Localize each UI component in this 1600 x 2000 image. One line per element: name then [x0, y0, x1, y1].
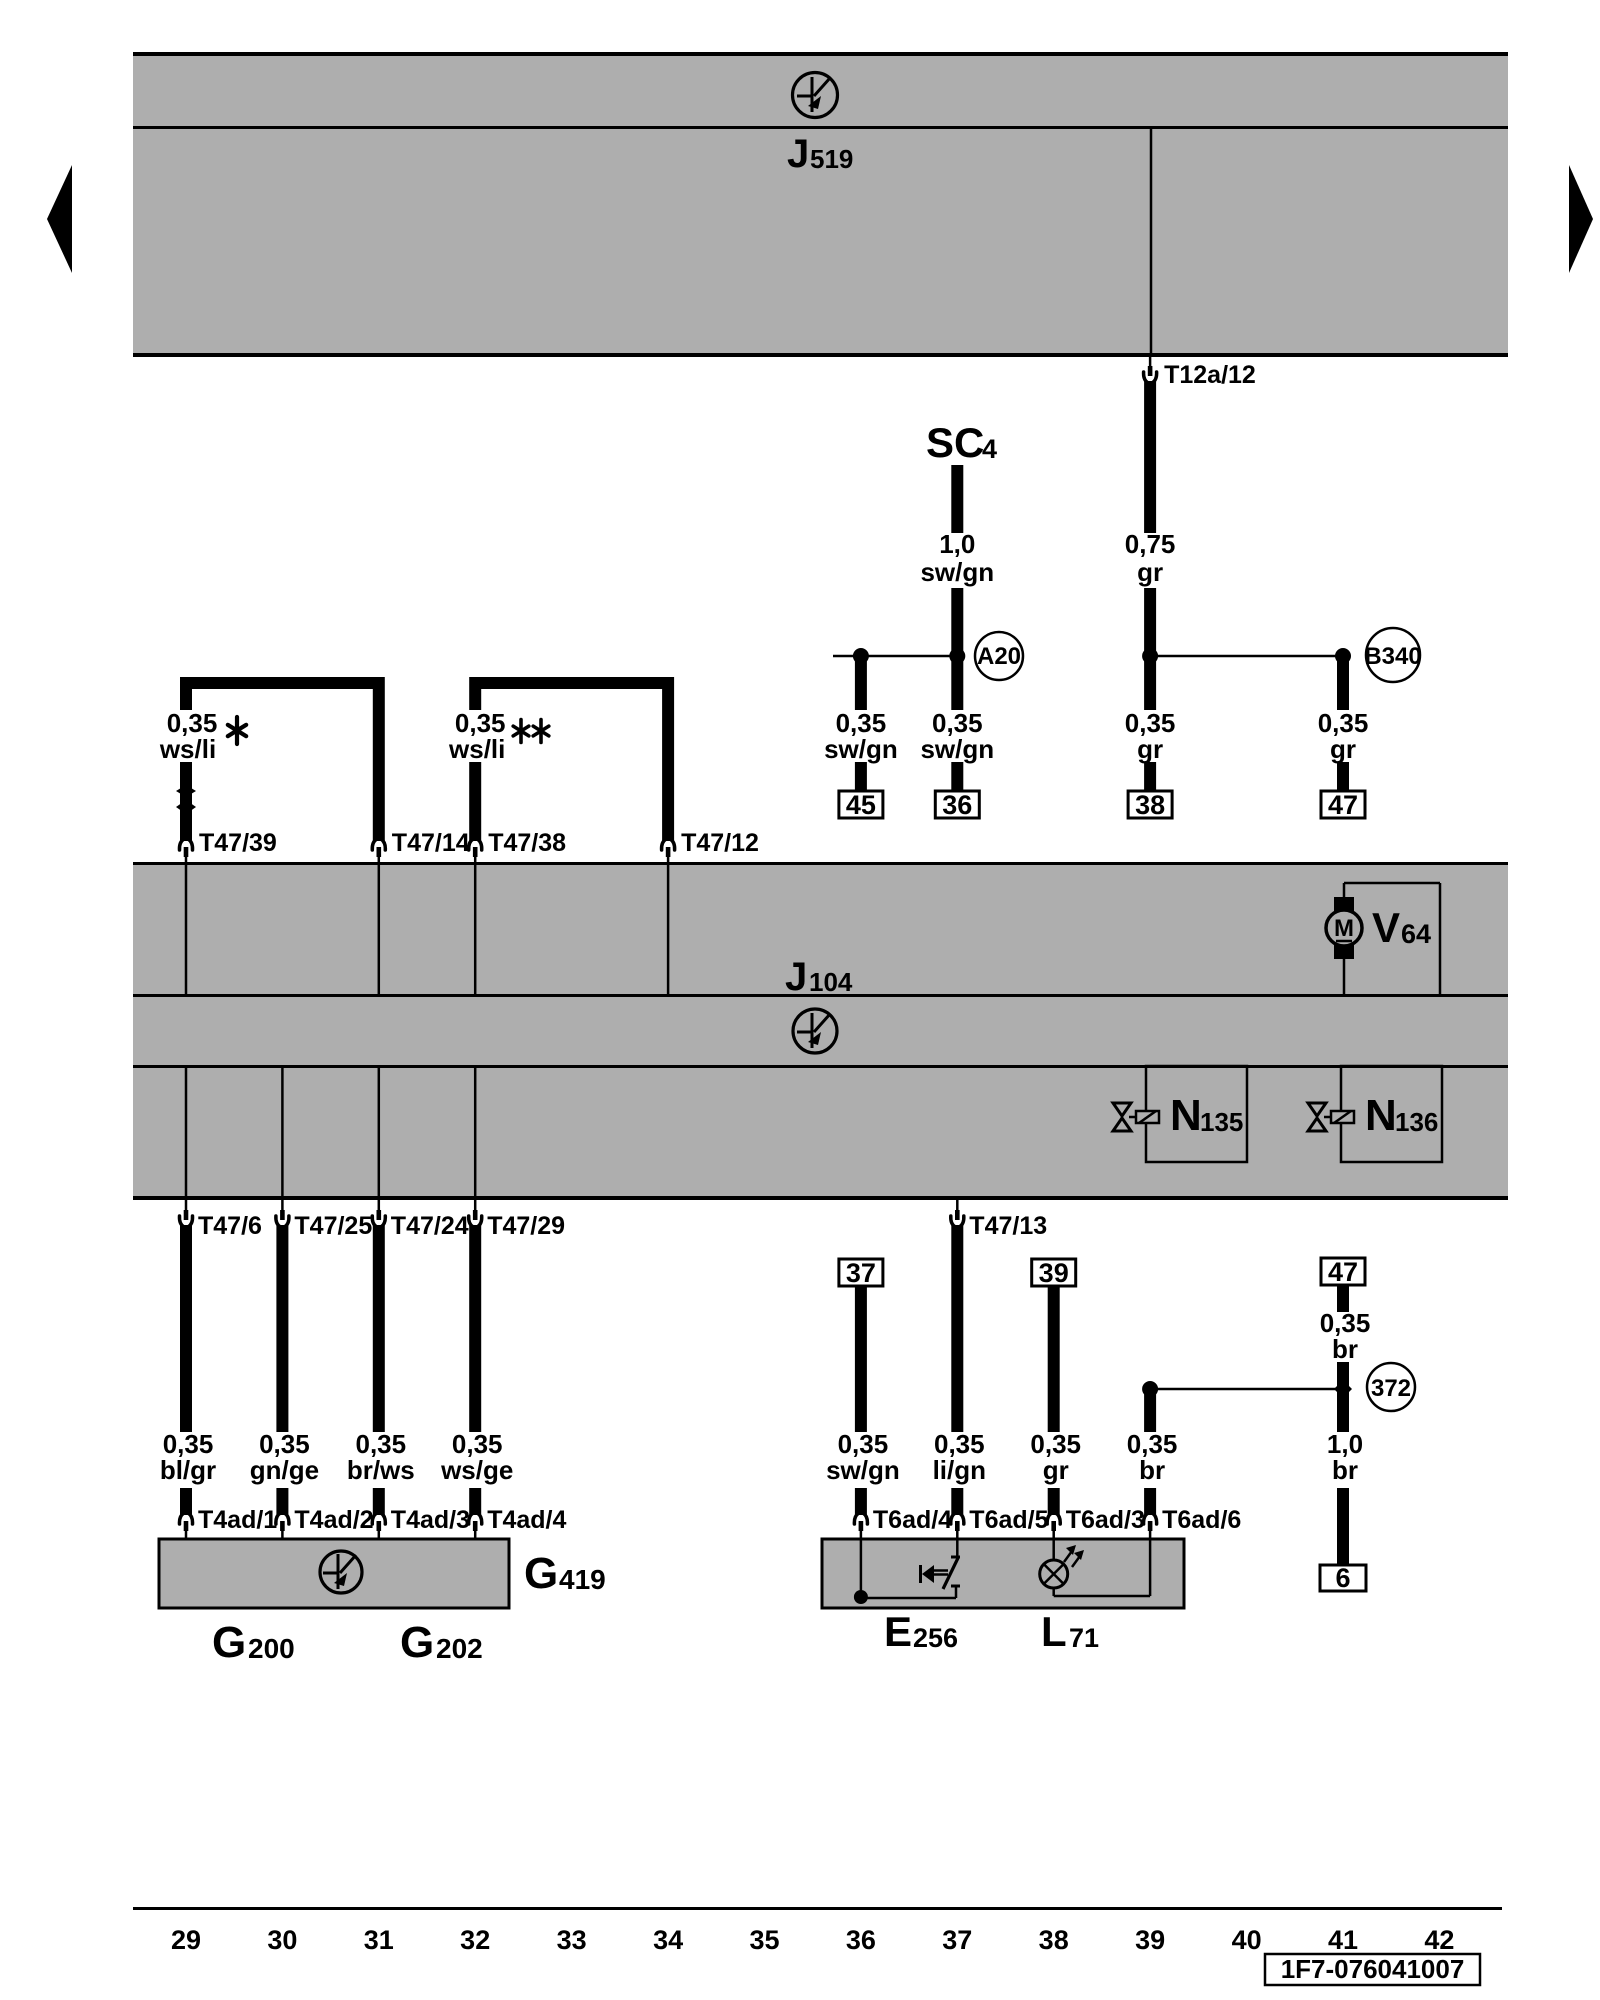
label T6ad/4 [873, 1506, 952, 1534]
svg-text:gr: gr [1137, 557, 1163, 587]
svg-text:T6ad/3: T6ad/3 [1066, 1506, 1145, 1534]
wire 0,35 sw/gn from terminal 37 [855, 1286, 867, 1432]
wire internal J104 to pin T47/6 [185, 1066, 188, 1212]
grid numbers 29-42 [171, 1925, 1454, 1955]
svg-text:sw/gn: sw/gn [826, 1455, 900, 1485]
svg-text:G: G [524, 1549, 558, 1598]
lamp L71 symbol [1040, 1539, 1150, 1596]
svg-text:135: 135 [1200, 1107, 1243, 1137]
svg-text:ws/li: ws/li [448, 734, 505, 764]
control unit J519 box (onboard supply control unit) [133, 52, 1508, 357]
svg-text:45: 45 [846, 790, 876, 820]
svg-text:M: M [1334, 915, 1354, 942]
svg-text:br: br [1139, 1455, 1165, 1485]
svg-text:br/ws: br/ws [347, 1455, 415, 1485]
svg-text:39: 39 [1039, 1258, 1069, 1288]
label J104 [785, 955, 853, 999]
svg-text:47: 47 [1328, 790, 1358, 820]
label 0,75 gr [1125, 529, 1176, 587]
svg-text:T47/39: T47/39 [199, 829, 277, 857]
wire internal J519 to pin T12a/12 [1150, 129, 1153, 357]
svg-text:T47/12: T47/12 [681, 829, 759, 857]
junction node on gr wire [1142, 648, 1158, 664]
svg-text:J: J [785, 955, 807, 999]
svg-text:G: G [400, 1618, 434, 1667]
wire 0,75 gr upper segment [1144, 381, 1156, 533]
sensor unit G419 box (G200/G202) [159, 1539, 509, 1608]
svg-text:B340: B340 [1364, 643, 1421, 670]
node circle A20 [975, 632, 1023, 680]
svg-text:gr: gr [1043, 1455, 1069, 1485]
svg-text:64: 64 [1401, 919, 1431, 949]
valve N135 symbol [1113, 1066, 1247, 1162]
wire 0,35 sw/gn from A20 node [855, 656, 867, 710]
terminal box 47 lower [1321, 1257, 1365, 1287]
svg-text:bl/gr: bl/gr [160, 1455, 216, 1485]
label T6ad/6 [1162, 1506, 1241, 1534]
svg-text:37: 37 [846, 1258, 876, 1288]
wire 0,35 sw/gn to E256 [855, 1488, 867, 1515]
switch/lamp unit box E256 L71 [822, 1539, 1184, 1608]
connector pin T6ad/6 [1144, 1513, 1157, 1539]
svg-text:34: 34 [653, 1925, 683, 1955]
wire internal J104 from pin T47/12 [667, 865, 670, 996]
svg-text:202: 202 [436, 1633, 483, 1664]
svg-text:A20: A20 [977, 643, 1021, 670]
wire 0,35 br/ws lower segment [373, 1488, 385, 1515]
internal wire E256 left leg [854, 1539, 956, 1604]
wire 0,35 ws/ge lower segment [469, 1488, 481, 1515]
terminal box 6 [1320, 1563, 1366, 1593]
valve N136 symbol [1308, 1066, 1442, 1162]
junction dot on sw/gn wire A20 [949, 648, 965, 664]
svg-text:35: 35 [749, 1925, 779, 1955]
wire node line B340 [1150, 655, 1343, 658]
svg-text:li/gn: li/gn [933, 1455, 986, 1485]
svg-text:T47/14: T47/14 [392, 829, 470, 857]
connector pin T6ad/4 [854, 1513, 867, 1539]
label T47/14 [392, 829, 470, 857]
label 0,35 ws/li with ** [448, 708, 549, 764]
K symbol in J104 [793, 1009, 837, 1053]
label G419 [524, 1549, 606, 1598]
wire 0,35 gn/ge upper segment [276, 1225, 288, 1432]
grid ruler line [133, 1907, 1502, 1910]
wire internal J104 from pin T47/39 [185, 865, 188, 996]
label T47/13 [969, 1212, 1047, 1240]
svg-text:SC: SC [926, 419, 984, 466]
terminal box 38 [1128, 790, 1172, 820]
label 0,35 sw/gn (col 37) [920, 708, 994, 764]
node circle 372 [1367, 1363, 1415, 1411]
wire 1,0 br to terminal 6 [1337, 1488, 1349, 1565]
label 0,35 gr (col 41) [1318, 708, 1369, 764]
svg-text:T47/29: T47/29 [487, 1212, 565, 1240]
svg-text:T4ad/2: T4ad/2 [294, 1506, 373, 1534]
label SC4 [926, 419, 997, 466]
svg-text:1,0: 1,0 [939, 529, 975, 559]
label T12a/12 [1164, 361, 1256, 389]
K symbol in J519 [793, 73, 838, 118]
svg-text:G: G [212, 1618, 246, 1667]
label T47/38 [488, 829, 566, 857]
svg-text:ws/ge: ws/ge [440, 1455, 513, 1485]
label 0,35 gn/ge [250, 1429, 319, 1485]
connector pin T6ad/5 [951, 1513, 964, 1539]
svg-text:372: 372 [1371, 1375, 1411, 1402]
connector pin T47/12 [662, 839, 675, 996]
svg-text:29: 29 [171, 1925, 201, 1955]
svg-text:38: 38 [1135, 790, 1165, 820]
connector pin T47/14 [372, 839, 385, 996]
svg-text:T47/25: T47/25 [294, 1212, 372, 1240]
wire node line 372 [1150, 1388, 1343, 1391]
svg-text:gr: gr [1137, 734, 1163, 764]
wire 0,35 br segment [1144, 1392, 1156, 1432]
svg-text:71: 71 [1069, 1623, 1099, 1653]
label T47/12 [681, 829, 759, 857]
connector pin T47/24 [372, 1210, 385, 1227]
wire 0,75 gr lower segment [1144, 588, 1156, 710]
svg-text:200: 200 [248, 1633, 295, 1664]
label N135 [1170, 1091, 1243, 1140]
label J519 [787, 132, 853, 176]
svg-text:sw/gn: sw/gn [920, 557, 994, 587]
svg-text:sw/gn: sw/gn [920, 734, 994, 764]
label 1,0 br [1327, 1429, 1363, 1485]
wire internal J104 from pin T47/38 [474, 865, 477, 996]
wire 0,35 gn/ge lower segment [276, 1488, 288, 1515]
svg-text:30: 30 [267, 1925, 297, 1955]
wire 0,35 gr from terminal 39 [1048, 1286, 1060, 1432]
splice marks on ws/li wire [176, 785, 196, 814]
wire 0,35 br lower segment [1144, 1488, 1156, 1515]
svg-text:519: 519 [810, 144, 853, 174]
wire 0,35 br/ws upper segment [373, 1225, 385, 1432]
wire 0,35 gr from B340 [1337, 656, 1349, 710]
label 0,35 li/gn [933, 1429, 986, 1485]
label G202 [400, 1618, 483, 1667]
terminal box 36 [935, 790, 979, 820]
label T4ad/2 [294, 1506, 373, 1534]
wire 0,35 br from terminal 47 [1337, 1285, 1349, 1312]
svg-text:36: 36 [942, 790, 972, 820]
wire internal J104 to pin T47/24 [378, 1066, 381, 1212]
wire 0,35 gr to L71 [1048, 1488, 1060, 1515]
svg-text:47: 47 [1328, 1257, 1358, 1287]
wire 1,0 sw/gn from SC4 [951, 465, 963, 533]
label 0,35 ws/ge [440, 1429, 513, 1485]
connector pin T4ad/4 [469, 1513, 482, 1539]
wire node line A20 [833, 655, 957, 658]
splice diamond at node 372 [1334, 1380, 1352, 1398]
label T6ad/5 [969, 1506, 1048, 1534]
label 0,35 gr (col 38-line) [1125, 708, 1176, 764]
wire 0,35 bl/gr upper segment [180, 1225, 192, 1432]
connector pin T47/38 [469, 839, 482, 996]
svg-text:T4ad/3: T4ad/3 [391, 1506, 470, 1534]
connector pin T47/25 [276, 1210, 289, 1227]
wire 0,35 li/gn lower segment [951, 1488, 963, 1515]
svg-text:br: br [1332, 1455, 1358, 1485]
svg-text:31: 31 [364, 1925, 394, 1955]
left continuation arrow [47, 165, 72, 273]
label T4ad/1 [198, 1506, 277, 1534]
node circle B340 [1364, 628, 1421, 682]
svg-text:36: 36 [846, 1925, 876, 1955]
K symbol in G419 [320, 1551, 362, 1593]
label T4ad/3 [391, 1506, 470, 1534]
terminal box 45 [839, 790, 883, 820]
wire ws/li lower segment col32 [469, 762, 481, 841]
svg-text:T6ad/6: T6ad/6 [1162, 1506, 1241, 1534]
svg-text:1F7-076041007: 1F7-076041007 [1281, 1954, 1465, 1984]
label N136 [1365, 1091, 1438, 1140]
terminal box 39 [1032, 1258, 1076, 1288]
svg-text:T47/6: T47/6 [198, 1212, 262, 1240]
svg-text:40: 40 [1232, 1925, 1262, 1955]
svg-text:T6ad/5: T6ad/5 [969, 1506, 1048, 1534]
connector pin T47/6 [179, 1210, 192, 1227]
wire 0,35 sw/gn to terminal 45 [855, 762, 867, 791]
svg-text:sw/gn: sw/gn [824, 734, 898, 764]
wire sw/gn middle segment [951, 588, 963, 710]
junction dot left 372 [1142, 1381, 1158, 1397]
svg-text:T47/38: T47/38 [488, 829, 566, 857]
svg-text:6: 6 [1335, 1563, 1350, 1593]
svg-text:419: 419 [559, 1564, 606, 1595]
label 0,35 br (col41) [1320, 1308, 1371, 1364]
connector pin T4ad/1 [179, 1513, 192, 1539]
motor V64 (haldex pump) with circuit [1326, 883, 1440, 995]
wire internal J104 to pin T47/25 [281, 1066, 284, 1212]
wire ws/li lower segment col29 [180, 762, 192, 841]
terminal box 37 [839, 1258, 883, 1288]
wire 0,35 gr to terminal 38 [1144, 762, 1156, 791]
label T47/6 [198, 1212, 262, 1240]
svg-text:33: 33 [557, 1925, 587, 1955]
wire internal J104 to pin T47/29 [474, 1066, 477, 1212]
svg-text:0,75: 0,75 [1125, 529, 1176, 559]
svg-text:L: L [1041, 1608, 1067, 1655]
junction dot left A20 [853, 648, 869, 664]
label 0,35 sw/gn (col 36) [824, 708, 898, 764]
connector pin T47/29 [469, 1210, 482, 1227]
svg-text:136: 136 [1395, 1107, 1438, 1137]
right continuation arrow [1569, 165, 1593, 273]
diagram number box [1265, 1954, 1480, 1985]
label 0,35 sw/gn (lower) [826, 1429, 900, 1485]
terminal box 47 upper [1321, 790, 1365, 820]
label 0,35 br [1127, 1429, 1178, 1485]
label 0,35 br/ws [347, 1429, 415, 1485]
wire br through node 372 [1337, 1362, 1349, 1432]
connector pin T47/13 [951, 1200, 964, 1227]
svg-text:ws/li: ws/li [159, 734, 216, 764]
label G200 [212, 1618, 295, 1667]
label 0,35 ws/li with * [159, 708, 246, 764]
wire bridge ws/li (T47/39 to T47/14) [186, 683, 379, 841]
svg-text:J: J [787, 132, 809, 176]
svg-text:T12a/12: T12a/12 [1164, 361, 1256, 389]
wire 0,35 li/gn upper segment [951, 1225, 963, 1432]
label T47/24 [391, 1212, 469, 1240]
label L71 [1041, 1608, 1099, 1655]
svg-text:T6ad/4: T6ad/4 [873, 1506, 952, 1534]
label T47/25 [294, 1212, 372, 1240]
svg-text:T47/24: T47/24 [391, 1212, 469, 1240]
svg-text:N: N [1170, 1091, 1202, 1140]
svg-text:37: 37 [942, 1925, 972, 1955]
svg-text:41: 41 [1328, 1925, 1358, 1955]
svg-text:104: 104 [809, 967, 853, 997]
junction dot right end B340 [1335, 648, 1351, 664]
svg-text:V: V [1372, 904, 1400, 951]
svg-text:39: 39 [1135, 1925, 1165, 1955]
label T6ad/3 [1066, 1506, 1145, 1534]
wire 0,35 gr to terminal 47 [1337, 762, 1349, 791]
switch E256 symbol [921, 1539, 961, 1598]
wire 0,35 sw/gn to terminal 36 [951, 762, 963, 791]
label T47/29 [487, 1212, 565, 1240]
control unit J104 box (ABS control unit) [133, 862, 1508, 1200]
wire 0,35 ws/ge upper segment [469, 1225, 481, 1432]
wire internal J104 from pin T47/14 [378, 865, 381, 996]
svg-text:E: E [884, 1608, 912, 1655]
wire bridge ws/li (T47/38 to T47/12) [475, 683, 668, 841]
label 1,0 sw/gn [920, 529, 994, 587]
svg-text:T47/13: T47/13 [969, 1212, 1047, 1240]
label E256 [884, 1608, 958, 1655]
svg-text:32: 32 [460, 1925, 490, 1955]
svg-text:4: 4 [982, 434, 997, 464]
label 0,35 gr (lower) [1030, 1429, 1081, 1485]
label 0,35 bl/gr [160, 1429, 216, 1485]
connector pin T4ad/3 [372, 1513, 385, 1539]
connector pin T6ad/3 [1047, 1513, 1060, 1539]
svg-text:T4ad/4: T4ad/4 [487, 1506, 566, 1534]
svg-text:N: N [1365, 1091, 1397, 1140]
connector pin T4ad/2 [276, 1513, 289, 1539]
connector pin T12a/12 [1144, 357, 1157, 383]
connector pin T47/39 [179, 839, 192, 996]
svg-text:42: 42 [1424, 1925, 1454, 1955]
svg-text:256: 256 [913, 1623, 958, 1653]
label T4ad/4 [487, 1506, 566, 1534]
svg-text:gr: gr [1330, 734, 1356, 764]
label T47/39 [199, 829, 277, 857]
svg-text:gn/ge: gn/ge [250, 1455, 319, 1485]
svg-text:T4ad/1: T4ad/1 [198, 1506, 277, 1534]
wire 0,35 bl/gr lower segment [180, 1488, 192, 1515]
svg-text:38: 38 [1039, 1925, 1069, 1955]
svg-text:br: br [1332, 1334, 1358, 1364]
label V64 [1372, 904, 1431, 951]
